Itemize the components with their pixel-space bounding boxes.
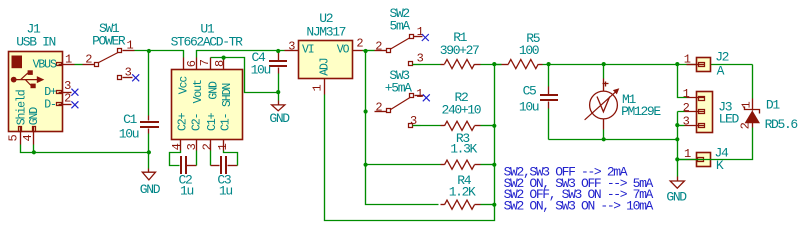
- svg-text:4: 4: [170, 143, 184, 150]
- svg-text:1u: 1u: [219, 184, 232, 199]
- ground symbol right: [670, 177, 684, 189]
- connector J1 (USB IN): [9, 52, 63, 132]
- wire SW2 to R1: [421, 64, 441, 66]
- svg-text:GND: GND: [666, 190, 687, 205]
- svg-text:J2: J2: [715, 50, 728, 65]
- junction GND bus / mid rail: [675, 137, 679, 141]
- svg-text:1: 1: [683, 87, 690, 101]
- svg-text:C1+: C1+: [206, 112, 219, 131]
- svg-text:VO: VO: [337, 43, 350, 56]
- J1 pin 4 line (GND): [33, 127, 35, 145]
- svg-text:8: 8: [213, 60, 227, 67]
- no-connect X on D+: [71, 89, 78, 96]
- resistor R2: [441, 121, 481, 130]
- wire SW3 to R2: [421, 125, 441, 127]
- no-connect X on SW1 pin 3: [132, 74, 139, 81]
- wire C1 top drop: [148, 51, 150, 116]
- zener diode D1 RD5.6: [678, 65, 761, 160]
- wire R2 to bus: [481, 125, 495, 127]
- wire VBUS to SW1: [75, 64, 83, 66]
- svg-text:2: 2: [375, 40, 382, 54]
- svg-text:3: 3: [185, 143, 199, 150]
- J1 pin 5 line (Shield): [20, 127, 22, 145]
- svg-text:1: 1: [216, 143, 230, 150]
- wire R1 junction to R5: [495, 64, 502, 66]
- svg-text:D1: D1: [766, 97, 780, 112]
- no-connect X on D-: [71, 101, 78, 108]
- svg-text:2: 2: [64, 92, 71, 106]
- junction C5 tap: [547, 62, 551, 66]
- svg-text:2: 2: [356, 37, 363, 51]
- svg-text:1: 1: [740, 102, 754, 109]
- U1 pin 7 stub (Vout): [196, 58, 198, 70]
- capacitor C5: [540, 65, 558, 140]
- junction bus/R3: [492, 163, 496, 167]
- svg-text:1.3K: 1.3K: [450, 141, 477, 156]
- svg-text:D-: D-: [44, 99, 56, 112]
- svg-text:1: 1: [65, 53, 72, 67]
- svg-text:240+10: 240+10: [442, 102, 481, 117]
- svg-text:PM129E: PM129E: [621, 104, 661, 119]
- wire C4 bottom: [278, 74, 280, 93]
- svg-text:VI: VI: [302, 43, 314, 56]
- svg-text:2: 2: [739, 122, 753, 129]
- svg-text:C5: C5: [523, 84, 536, 99]
- svg-text:5mA: 5mA: [390, 19, 411, 34]
- svg-text:GND: GND: [207, 81, 220, 100]
- svg-text:2: 2: [201, 143, 215, 150]
- svg-text:Vout: Vout: [192, 80, 205, 103]
- svg-text:USB IN: USB IN: [16, 35, 55, 50]
- junction C1/rail: [147, 150, 151, 154]
- svg-text:10u: 10u: [519, 99, 539, 114]
- svg-text:10u: 10u: [251, 62, 271, 77]
- junction J2 tap: [675, 62, 679, 66]
- wire R4 to bus: [481, 204, 495, 206]
- IC U1 ST662ACD-TR: [172, 70, 243, 140]
- svg-text:1: 1: [311, 85, 325, 92]
- wire bus to R3: [366, 164, 441, 166]
- svg-text:5: 5: [7, 135, 21, 142]
- wire R3 to bus: [481, 164, 495, 166]
- U1 pin 8 stub (GND): [210, 58, 212, 70]
- J1 pin 1 line: [59, 64, 75, 66]
- no-connect X on SW2 pin 1: [422, 34, 429, 41]
- U1 pin 4 stub (C2+): [180, 140, 182, 151]
- wire J3 pin3 link: [678, 125, 685, 127]
- switch SW1 (POWER): [83, 49, 135, 80]
- svg-text:3: 3: [417, 52, 424, 66]
- wire U2 VO to SW2: [363, 50, 375, 52]
- junction GND bus / J4: [675, 157, 679, 161]
- svg-text:VBUS: VBUS: [33, 58, 57, 71]
- wire VO bus vertical down to R4: [366, 51, 439, 205]
- junction bus/R4: [492, 203, 496, 207]
- svg-text:1: 1: [127, 38, 134, 52]
- svg-text:1: 1: [416, 87, 423, 101]
- U2 pin 2 line: [353, 50, 363, 52]
- U1 pin 2 stub (C1+): [210, 140, 212, 151]
- wire U1 Vout to U2 VI rail: [197, 51, 285, 58]
- svg-text:100: 100: [519, 43, 539, 58]
- U2 pin 1 line (ADJ): [324, 79, 326, 95]
- capacitor C2: [170, 151, 197, 175]
- svg-text:D+: D+: [44, 86, 57, 99]
- wire C1 bottom: [148, 134, 150, 153]
- wire J1 pin4 drop: [33, 145, 35, 153]
- wire output rail R5 to D1: [543, 64, 753, 66]
- svg-text:GND: GND: [140, 182, 161, 197]
- junction M1 bottom: [602, 137, 606, 141]
- svg-text:GND: GND: [269, 111, 290, 126]
- svg-text:4: 4: [21, 135, 35, 142]
- regulator U2 NJM317: [299, 41, 353, 79]
- svg-text:GND: GND: [28, 107, 41, 126]
- wire J3 pin2 down GND bus: [678, 112, 685, 177]
- svg-text:C2+: C2+: [176, 112, 189, 131]
- U1 pin 1 stub (C1-): [223, 140, 225, 151]
- svg-text:3: 3: [125, 66, 132, 80]
- wire SW1 to U1 Vcc rail: [135, 51, 184, 58]
- junction J3 pin3: [675, 123, 679, 127]
- svg-text:RD5.6: RD5.6: [765, 117, 798, 132]
- svg-text:C1-: C1-: [220, 113, 233, 131]
- wire R1 to bus: [481, 64, 502, 66]
- svg-text:ST662ACD-TR: ST662ACD-TR: [171, 35, 244, 50]
- junction bus/R2: [492, 124, 496, 128]
- ground symbol left: [142, 153, 155, 180]
- switch SW3: [375, 94, 424, 128]
- U1 SHDN stub: [223, 58, 225, 70]
- svg-text:2: 2: [85, 52, 92, 66]
- capacitor C1: [140, 116, 159, 134]
- connector J4: [678, 153, 711, 167]
- svg-text:10u: 10u: [119, 126, 139, 141]
- svg-text:SW2 ON, SW3 ON --> 10mA: SW2 ON, SW3 ON --> 10mA: [504, 199, 654, 214]
- svg-text:390+27: 390+27: [440, 43, 479, 58]
- junction R1/right bus: [492, 62, 496, 66]
- svg-text:3: 3: [683, 114, 690, 128]
- resistor R3: [441, 160, 481, 169]
- capacitor C3: [211, 151, 238, 175]
- wire J1 shield/gnd rail: [21, 145, 149, 153]
- junction bus/SW3: [364, 109, 368, 113]
- svg-text:1.2K: 1.2K: [449, 185, 476, 200]
- U2 pin 3 line: [285, 50, 299, 52]
- svg-text:3: 3: [410, 114, 417, 128]
- ground symbol under C4: [272, 93, 285, 111]
- svg-text:1: 1: [417, 25, 424, 39]
- svg-text:C2-: C2-: [190, 113, 203, 131]
- switch SW2: [375, 35, 423, 66]
- svg-text:Vcc: Vcc: [178, 76, 191, 95]
- svg-text:+5mA: +5mA: [385, 81, 412, 96]
- junction SHDN: [222, 56, 226, 60]
- svg-text:C1: C1: [123, 112, 137, 127]
- junction at C1 top: [147, 49, 151, 53]
- J1 pin 2 line (D-): [59, 104, 72, 106]
- resistor R5: [502, 60, 543, 69]
- resistor R4: [441, 200, 481, 209]
- J1 pin 3 line (D+): [59, 92, 72, 94]
- resistor R1: [441, 60, 481, 69]
- svg-text:POWER: POWER: [92, 34, 126, 49]
- wire right bus / ADJ return: [325, 65, 495, 221]
- no-connect X on SW3 pin 1: [423, 94, 430, 101]
- wire J2 junction down to J3 pin1: [678, 65, 687, 98]
- junction M1 top tap: [602, 62, 606, 66]
- junction bus/R3: [364, 163, 368, 167]
- wire bottom mid rail C5 to GND bus: [549, 139, 678, 141]
- junction VO bus: [364, 49, 368, 53]
- junction C4 bottom: [276, 90, 280, 94]
- U1 pin 3 stub (C2-): [196, 140, 198, 151]
- connector J2: [687, 58, 711, 72]
- junction C4 top on rail: [276, 49, 280, 53]
- svg-text:LED: LED: [719, 112, 740, 127]
- svg-text:1: 1: [684, 53, 691, 67]
- capacitor C4: [269, 53, 287, 74]
- svg-text:Shield: Shield: [16, 90, 29, 125]
- wire U1 GND+SHDN to ground: [211, 58, 279, 93]
- svg-text:3: 3: [288, 40, 295, 54]
- svg-text:NJM317: NJM317: [306, 24, 345, 39]
- svg-text:2: 2: [375, 100, 382, 114]
- meter M1 PM129E: [585, 65, 619, 140]
- svg-text:2: 2: [683, 101, 690, 115]
- U1 pin 6 stub (Vcc): [183, 58, 185, 70]
- svg-text:1u: 1u: [180, 184, 193, 199]
- svg-text:ADJ: ADJ: [318, 58, 331, 76]
- junction pin4/rail: [32, 150, 36, 154]
- connector J3 (LED): [685, 92, 713, 133]
- svg-text:SHDN: SHDN: [221, 84, 234, 107]
